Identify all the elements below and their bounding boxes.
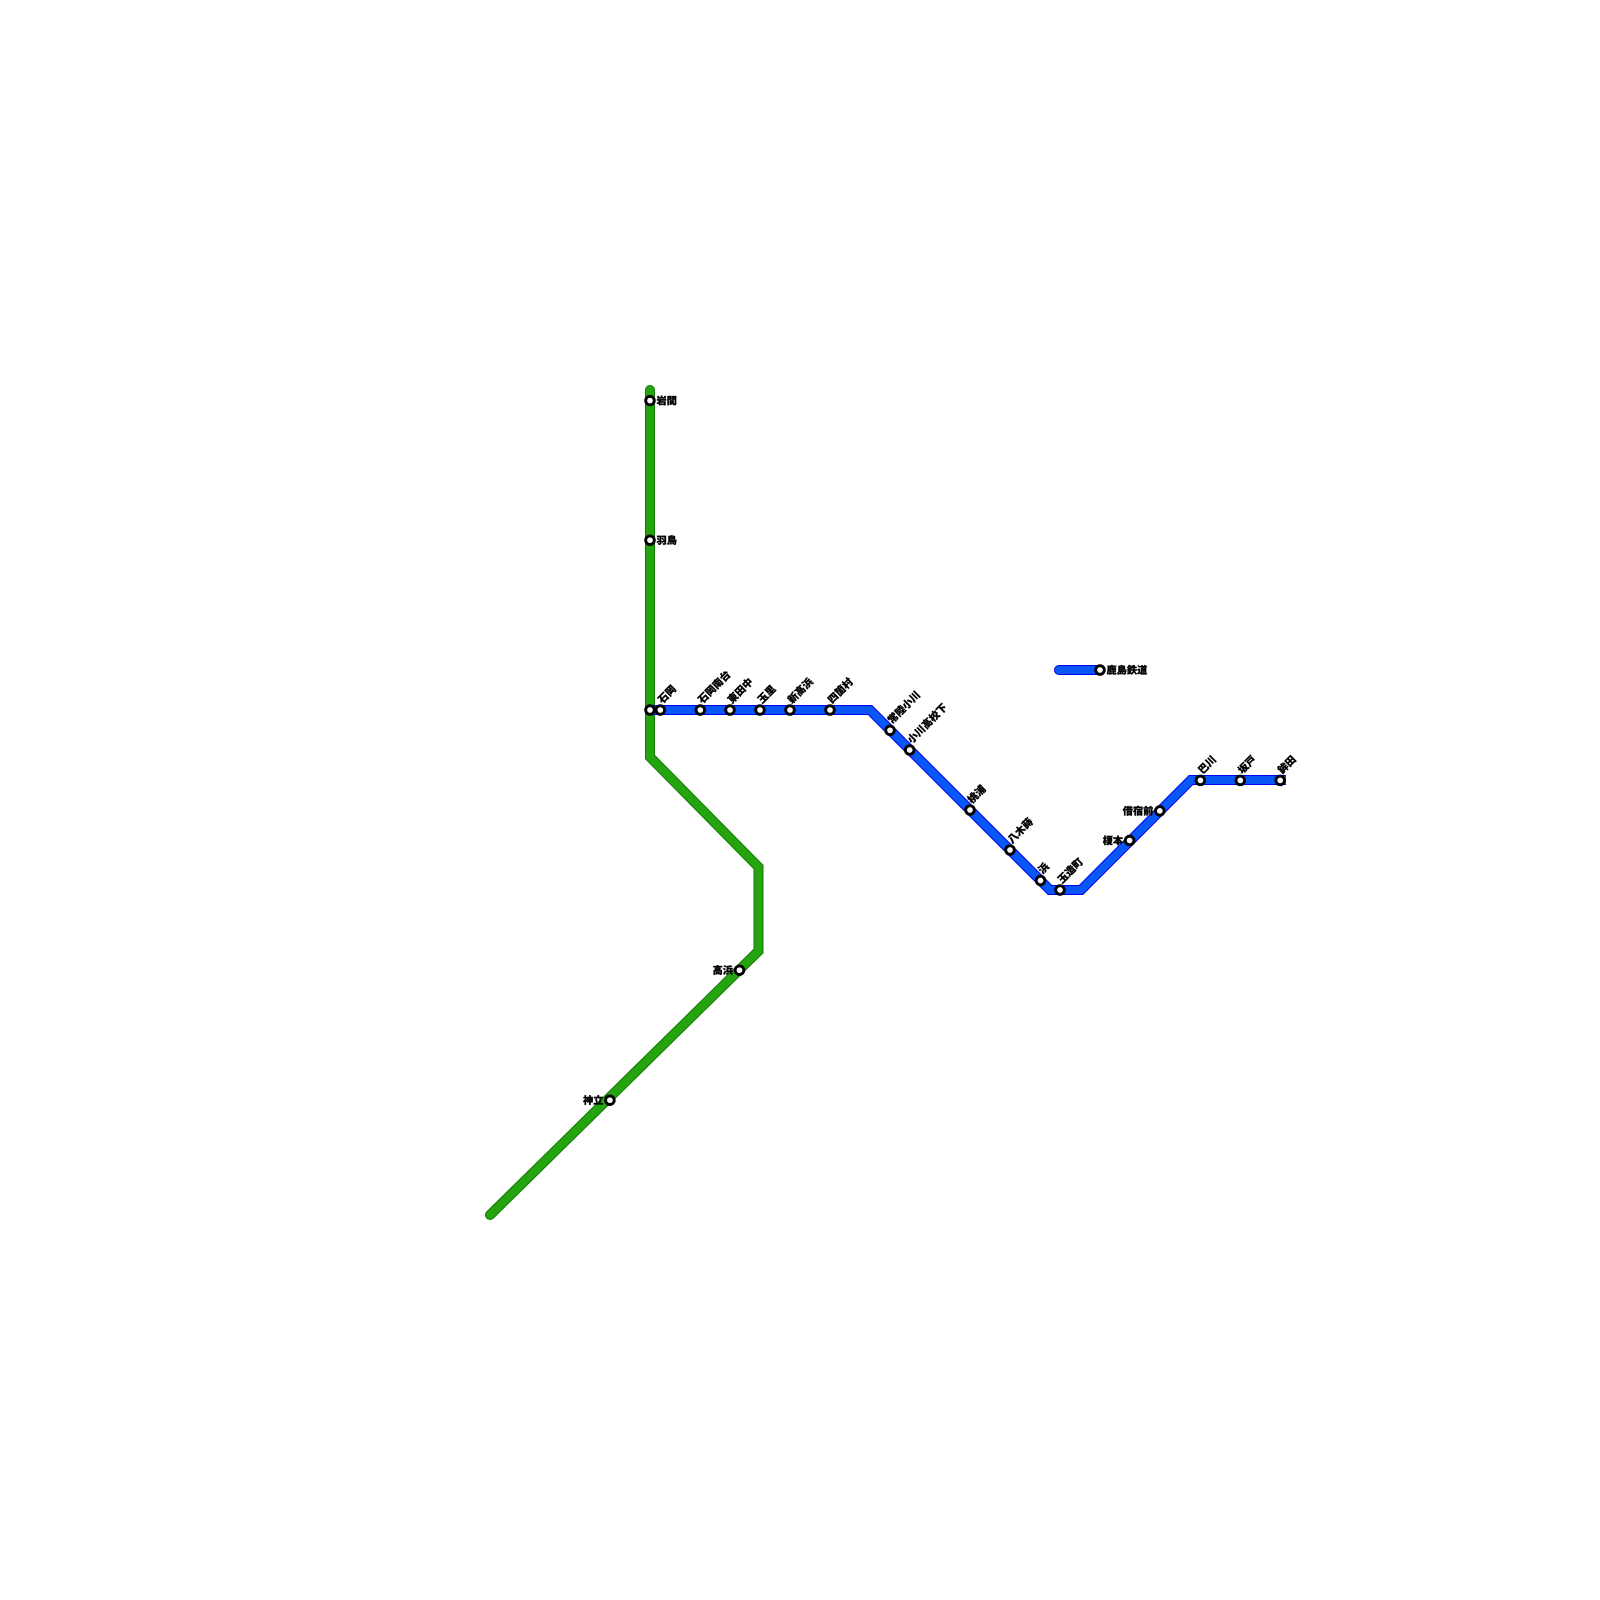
legend station marker <box>1096 666 1105 675</box>
station 巴川 <box>1196 755 1217 785</box>
JR Joban Line (green) <box>490 390 759 1215</box>
station 坂戸 <box>1236 754 1257 784</box>
station 浜 <box>1036 861 1050 885</box>
station 玉造町 <box>1056 856 1084 894</box>
legend: Kashima Railway sample line <box>1059 665 1100 675</box>
station 桃浦 <box>966 784 987 815</box>
station 羽鳥 <box>646 535 677 545</box>
station 小川高校下 <box>905 702 948 754</box>
station 借宿前 <box>1123 806 1164 816</box>
station 岩間 <box>646 396 677 406</box>
station 常陸小川 <box>886 690 921 735</box>
station 石岡 (JR) <box>646 706 655 715</box>
station 石岡 <box>656 684 677 714</box>
station 新高浜 <box>786 676 815 714</box>
station 鉾田 <box>1276 754 1297 784</box>
station 玉里 <box>756 684 777 714</box>
station 高浜 <box>713 965 744 975</box>
station 東田中 <box>726 677 754 715</box>
Kashima Railway Line (blue) <box>653 710 1286 890</box>
station 石岡南台 <box>696 669 732 714</box>
station 榎本 <box>1103 835 1134 845</box>
legend label 鹿島鉄道 <box>1107 665 1147 675</box>
station 神立 <box>583 1095 614 1105</box>
station 四箇村 <box>826 676 854 714</box>
station 八木蒔 <box>1006 816 1034 854</box>
